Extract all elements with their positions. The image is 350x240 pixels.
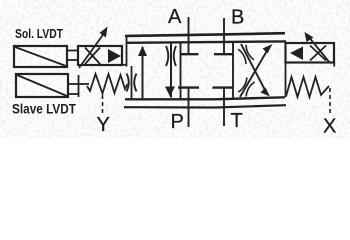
LVDT box 1 (solenoid LVDT) — [14, 46, 67, 67]
wire from LVDT box2 upper — [68, 83, 78, 85]
pilot flow triangle left — [108, 49, 121, 63]
pilot throttle line lower-left — [131, 66, 133, 99]
throttle arcs on diagonal lower — [238, 77, 247, 92]
svg-text:B: B — [231, 7, 244, 29]
port B blocked bar — [214, 53, 233, 55]
pilot line Y dashed — [102, 95, 104, 114]
spring left — [87, 74, 128, 94]
proportional solenoid box right — [286, 43, 335, 63]
divider center/crossed square — [232, 42, 234, 98]
solenoid coil cross left — [85, 48, 100, 65]
wire link to spring — [79, 83, 90, 85]
solenoid box bottom extension — [122, 64, 127, 66]
svg-text:A: A — [168, 6, 182, 28]
wire from LVDT box2 lower — [68, 93, 78, 95]
valve top envelope line — [125, 33, 285, 36]
svg-text:Y: Y — [97, 114, 110, 136]
pilot flow triangle right — [290, 47, 303, 61]
throttle arcs on diagonal upper — [246, 45, 254, 60]
crossed square diagonal up — [240, 49, 268, 97]
port T blocked bar — [213, 86, 234, 88]
divider square1/center — [180, 42, 182, 99]
crossed square diagonal down — [241, 44, 265, 90]
square1 flow line with throttle and down arrow — [170, 43, 172, 98]
svg-text:Slave LVDT: Slave LVDT — [12, 102, 77, 117]
proportional solenoid box left — [78, 46, 122, 65]
svg-text:P: P — [171, 111, 184, 133]
valve inner top line — [126, 41, 286, 42]
port B line — [223, 18, 225, 55]
throttle arcs lower-left — [127, 74, 129, 92]
square1 flow line with up arrow — [142, 47, 144, 98]
LVDT box 2 (slave LVDT) — [16, 74, 68, 97]
port A line — [188, 17, 190, 55]
valve right edge — [285, 42, 287, 98]
wire bus vertical — [78, 75, 80, 97]
port P blocked bar — [178, 86, 199, 88]
port P line — [188, 87, 190, 127]
pilot line X dashed — [329, 88, 331, 115]
wire from LVDT box1 lower — [67, 59, 78, 61]
solenoid coil cross right — [310, 46, 326, 61]
wire from LVDT box1 upper — [67, 50, 78, 52]
spring right — [286, 77, 329, 97]
port A blocked bar — [181, 53, 199, 55]
solenoid box right edge extension — [333, 62, 335, 67]
valve bottom envelope line — [124, 105, 286, 107]
port T line — [223, 87, 225, 126]
svg-text:Sol. LVDT: Sol. LVDT — [15, 27, 63, 41]
valve inner bottom line — [125, 97, 285, 99]
proportional arrow right solenoid — [308, 36, 330, 63]
scan background speckle — [0, 0, 350, 138]
svg-text:X: X — [323, 116, 336, 138]
svg-text:T: T — [231, 110, 243, 132]
proportional arrow left solenoid — [79, 32, 105, 68]
valve left edge — [126, 36, 128, 67]
